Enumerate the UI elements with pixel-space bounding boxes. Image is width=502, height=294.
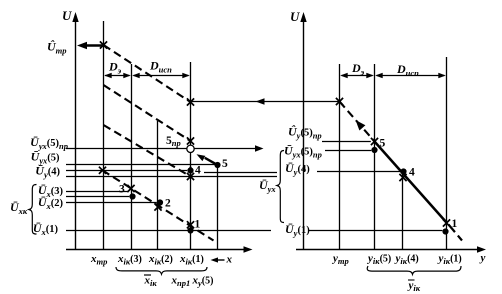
right U axis arrowhead [300, 12, 306, 22]
line Ux3 [66, 196, 129, 198]
U_tr thick arrow shaft [85, 44, 104, 46]
dim arrowhead De left [104, 73, 112, 79]
svg-text:2: 2 [165, 198, 171, 210]
marker below point4 [187, 173, 194, 180]
svg-text:Ūх(2): Ūх(2) [38, 195, 64, 211]
dim arrowhead Disp2 left [375, 73, 383, 79]
brace Uyx [277, 151, 284, 223]
dim arrowhead Disp right [182, 73, 190, 79]
point 4 left [187, 167, 193, 173]
svg-text:U: U [62, 8, 72, 23]
line Ux2 [66, 202, 157, 204]
svg-text:5: 5 [380, 138, 386, 150]
dim arrowhead De right [123, 73, 131, 79]
line Uyx5 left [66, 164, 215, 166]
gridline x_y5 [217, 166, 219, 250]
right point 4 [400, 168, 406, 174]
dashed line L2 [104, 85, 191, 141]
right line dashed top [340, 102, 375, 142]
svg-text:4: 4 [195, 165, 201, 177]
svg-text:y: y [479, 252, 486, 264]
marker U_tr [100, 41, 107, 48]
line Uyx5pr right [325, 150, 371, 152]
svg-text:xiк(3): xiк(3) [117, 253, 142, 267]
right marker 4 [399, 174, 406, 181]
open circle 5pr [187, 145, 194, 152]
gridline x_tr [103, 21, 105, 250]
point 3 left [129, 193, 135, 199]
left U axis [75, 18, 77, 250]
right line dashed bottom [449, 225, 463, 241]
point 5 left [214, 162, 220, 168]
arrow 5 to 5pr shaft [205, 158, 215, 164]
left x axis arrowhead [244, 246, 253, 252]
svg-text:1: 1 [195, 219, 201, 231]
svg-text:yiк(5): yiк(5) [366, 253, 391, 267]
dim line D_e right [342, 75, 373, 77]
left x axis [66, 249, 247, 251]
open circle arrowhead [255, 145, 264, 151]
dim arrowhead Disp2 right [438, 73, 446, 79]
macron over y_ik mean [408, 279, 415, 281]
svg-text:Ūу(4): Ūу(4) [285, 161, 310, 177]
arrow before x label [214, 259, 225, 261]
right marker 5 [371, 138, 378, 145]
marker 5pr [187, 137, 194, 144]
gridline x_ik3 [131, 64, 133, 250]
svg-text:1: 1 [452, 218, 458, 230]
up triangle above point4 [188, 166, 194, 171]
gridline y_tr [339, 64, 341, 250]
right U axis [303, 18, 305, 250]
dashed line L3 [104, 125, 191, 177]
line Uy4 right [317, 171, 400, 173]
brace under x_ik [116, 267, 207, 274]
line Uy5pr right [322, 141, 371, 143]
right line solid [375, 142, 447, 223]
line Ux1 [66, 230, 271, 232]
dim arrowhead De2 left [340, 73, 348, 79]
arrow 5 to 5pr head [197, 154, 206, 161]
svg-text:x: x [226, 254, 233, 266]
svg-text:yiк(4): yiк(4) [394, 253, 419, 267]
arrow from open circle [194, 148, 256, 150]
dim arrowhead Disp left [132, 73, 140, 79]
dim line D_isp right [377, 75, 445, 77]
svg-text:Ūх(1): Ūх(1) [33, 221, 59, 237]
arrowhead on dashed segment [356, 120, 366, 131]
point 1 left [187, 227, 193, 233]
brace under y_ik [367, 266, 461, 274]
svg-text:xiк(2): xiк(2) [148, 253, 173, 267]
svg-text:yiк(1): yiк(1) [437, 253, 462, 267]
svg-text:3: 3 [119, 184, 125, 196]
right point 1 [442, 228, 448, 234]
macron over x_ik mean [144, 274, 151, 276]
U_tr arrowhead [77, 42, 87, 49]
marker point1 [187, 221, 194, 228]
right y axis arrowhead [477, 246, 486, 252]
svg-text:5: 5 [222, 158, 228, 170]
connection left arrowhead [256, 98, 265, 105]
left U axis arrowhead [72, 12, 78, 22]
marker point2 [154, 203, 161, 210]
dim line D_isp left [134, 75, 189, 77]
connection line top [191, 101, 340, 103]
svg-text:Ūу(1): Ūу(1) [285, 222, 310, 238]
line Uy4 left [66, 170, 187, 172]
line Uyx5pr left [66, 148, 187, 150]
line Uy4 continuation [204, 172, 277, 174]
marker point3 [127, 185, 134, 192]
line Uy1 right [309, 230, 442, 232]
right marker y_tr [336, 98, 343, 105]
right point 5 [371, 147, 377, 153]
gridline x_ik1 [190, 62, 192, 250]
dashed line L1 [104, 45, 191, 102]
right marker 1 [443, 219, 450, 226]
dim line D_e left [105, 75, 130, 77]
point 2 left [157, 199, 163, 205]
svg-text:xу(5): xу(5) [192, 275, 214, 289]
brace Uxk [29, 185, 37, 235]
marker L1 end [187, 98, 194, 105]
marker L4 start [99, 167, 106, 174]
gridline x_ik2 [157, 121, 159, 250]
gridline y_ik4 [402, 171, 404, 250]
arrowhead before x label [211, 257, 219, 262]
line to marker3 [66, 191, 128, 193]
right y axis [296, 249, 479, 251]
dim arrowhead De2 right [366, 73, 374, 79]
svg-text:Ūу(4): Ūу(4) [35, 164, 60, 180]
gridline y_ik5 [374, 64, 376, 250]
gridline y_ik1 [446, 57, 448, 250]
svg-text:U: U [290, 9, 300, 24]
line y176 [66, 176, 277, 178]
svg-text:xiк(1): xiк(1) [179, 253, 204, 267]
dashed calibration line L4 [103, 170, 214, 240]
svg-text:4: 4 [409, 167, 415, 179]
